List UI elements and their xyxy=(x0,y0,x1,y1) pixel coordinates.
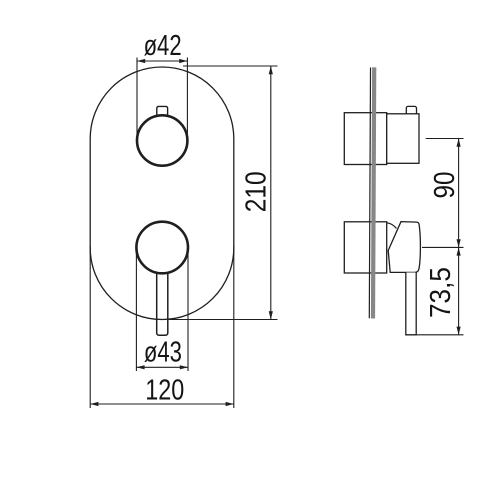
dimension 210 extension line bottom xyxy=(168,319,278,321)
side view: lever bar xyxy=(406,273,416,335)
dimension ø43 line xyxy=(136,366,188,368)
dimension ø42 extension line right (tangent) xyxy=(186,58,188,141)
dimension 73,5 arrow bottom xyxy=(457,327,461,335)
side view: wall plate body (gray) xyxy=(371,67,376,318)
dimension ø42 extension line left (tangent) xyxy=(136,58,138,141)
dimension 73,5 arrow top xyxy=(457,247,461,255)
lever bar (front view) xyxy=(157,266,168,335)
dimension 120 line xyxy=(90,403,234,405)
dimension ø42 arrow left xyxy=(137,59,145,63)
dimension ø42 line xyxy=(137,60,187,62)
dimension 210 line xyxy=(270,66,272,320)
side view: bottom base cylinder shoulder arc xyxy=(387,223,397,229)
dimension ø42 arrow right xyxy=(179,59,187,63)
dimension 90 arrow bottom xyxy=(457,239,461,247)
dimension 210 extension line top xyxy=(183,65,278,67)
bottom knob circle ø43 (front view) xyxy=(136,222,188,274)
svg-text:90: 90 xyxy=(429,172,461,199)
dimension 120 extension line right xyxy=(233,246,235,408)
side view: top valve body (wall side + base cylinder) xyxy=(344,113,386,165)
dimension 90 arrow top xyxy=(457,139,461,147)
dimension ø43 arrow left xyxy=(136,365,144,369)
svg-text:120: 120 xyxy=(145,375,184,407)
side view: bottom valve body (wall side + base cylinder) xyxy=(344,222,386,273)
side view: top knob index tab xyxy=(406,106,416,115)
dimension 210 arrow top xyxy=(269,66,273,74)
dimension ø43 extension line right (tangent) xyxy=(187,248,189,372)
top knob index tab (front view) xyxy=(157,106,168,116)
dimension 73,5 extension line bottom xyxy=(416,334,463,336)
dimension 120 arrow left xyxy=(90,402,98,406)
dimension 90 / 73,5 shared extension line xyxy=(422,246,464,248)
dimension ø43 extension line left (tangent) xyxy=(135,248,137,372)
front escutcheon plate (stadium outline) xyxy=(90,67,234,320)
dimension 120 arrow right xyxy=(226,402,234,406)
dimension ø43 arrow right xyxy=(180,365,188,369)
svg-text:ø43: ø43 xyxy=(144,336,182,368)
dimension 73,5 line xyxy=(458,247,460,334)
dimension 120 extension line left xyxy=(89,246,91,408)
dimension 90 extension line top xyxy=(426,138,464,140)
side view: wall plate front face line xyxy=(369,67,370,318)
side view: bottom knob tilted grip xyxy=(388,222,420,273)
top knob circle ø42 (front view) xyxy=(137,115,187,165)
svg-text:210: 210 xyxy=(241,171,273,212)
dimension 210 arrow bottom xyxy=(269,311,273,319)
svg-text:ø42: ø42 xyxy=(144,30,182,62)
side view: top knob grip xyxy=(387,114,419,164)
svg-text:73,5: 73,5 xyxy=(425,267,457,318)
dimension 90 line xyxy=(458,139,460,248)
